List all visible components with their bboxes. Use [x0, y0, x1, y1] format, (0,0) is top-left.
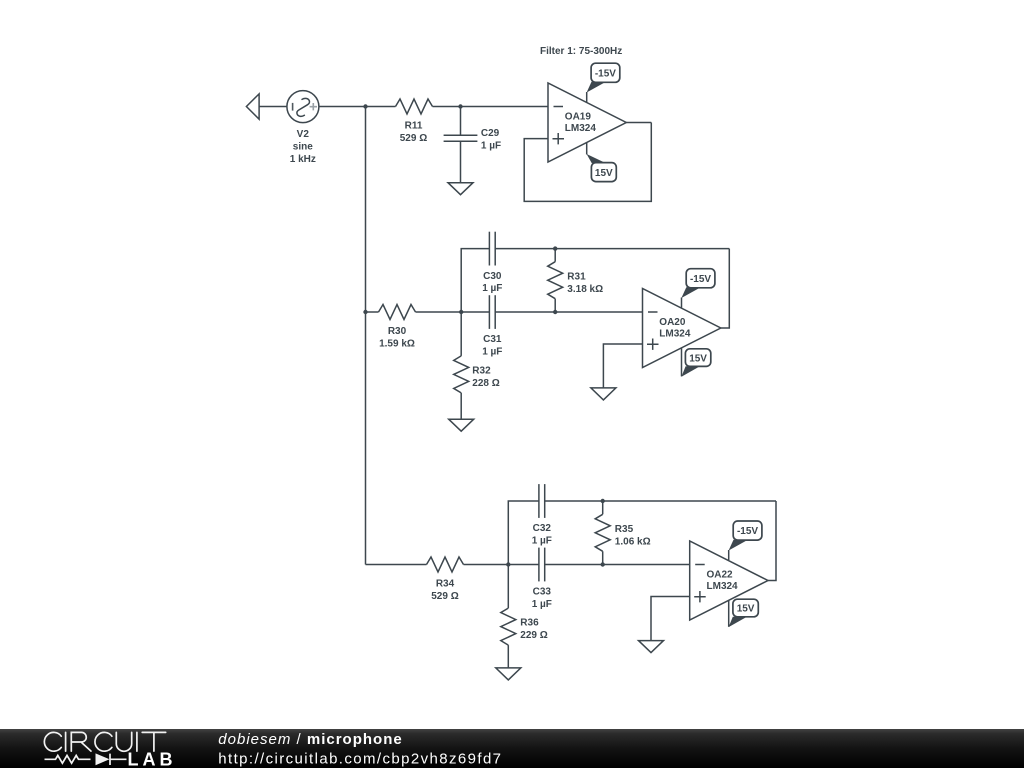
svg-text:Filter 1: 75-300Hz: Filter 1: 75-300Hz	[540, 46, 622, 57]
svg-text:R34: R34	[436, 579, 455, 590]
svg-text:3.18 kΩ: 3.18 kΩ	[567, 284, 603, 295]
svg-text:R35: R35	[615, 524, 634, 535]
ground below R32	[449, 419, 474, 431]
node B junction	[458, 104, 462, 108]
svg-text:C29: C29	[481, 128, 500, 139]
wire node C to R30	[366, 311, 379, 313]
wire trunk corner to R34 (row3)	[366, 564, 427, 566]
svg-text:C30: C30	[483, 271, 502, 282]
resistor R34	[427, 557, 464, 572]
ground below C29	[448, 183, 473, 195]
label R30 1.59k	[379, 326, 415, 349]
wire R11 to node B	[433, 106, 461, 108]
logo CIRCUIT outline letters	[44, 732, 165, 751]
wire node B to OA19 minus	[461, 106, 549, 108]
svg-text:R30: R30	[388, 326, 407, 337]
svg-text:1 µF: 1 µF	[482, 346, 502, 357]
svg-text:1 µF: 1 µF	[532, 536, 552, 547]
svg-text:dobiesem / microphone: dobiesem / microphone	[218, 731, 402, 748]
wire node D up to top rail	[461, 249, 489, 312]
footer url line	[218, 751, 502, 768]
label C30 1uF	[482, 271, 502, 294]
wire OA19 V- pin	[586, 142, 588, 154]
svg-text:LM324: LM324	[707, 581, 739, 592]
label C32 1uF	[532, 523, 552, 546]
logo resistor-diode line	[45, 753, 127, 765]
footer credit line	[218, 731, 402, 748]
wire node G up to bottom top-rail	[508, 501, 539, 565]
label C33 1uF	[532, 587, 552, 610]
svg-text:OA19: OA19	[565, 112, 592, 123]
title Filter 1: 75-300Hz	[540, 46, 622, 57]
wire OA19 feedback loop	[524, 123, 651, 202]
wire OA22 output and feedback	[768, 501, 776, 581]
svg-text:OA22: OA22	[707, 570, 734, 581]
label C29 1uF	[481, 128, 501, 151]
wire OA20 output and feedback	[721, 249, 730, 328]
capacitor C30	[489, 232, 495, 266]
wire OA22 plus to ground	[651, 597, 690, 641]
svg-text:V2: V2	[297, 129, 310, 140]
svg-text:LM324: LM324	[565, 123, 597, 134]
svg-text:C33: C33	[533, 587, 552, 598]
op-amp U3 OA22	[690, 541, 768, 620]
wire port to V2	[259, 106, 287, 108]
wire node D to C31	[461, 311, 489, 313]
power flag 15V (OA20)	[681, 349, 710, 377]
label R34 529	[431, 579, 458, 603]
svg-text:http://circuitlab.com/cbp2vh8z: http://circuitlab.com/cbp2vh8z69fd7	[218, 751, 502, 768]
wire V2 to node A	[319, 106, 366, 108]
svg-text:1.59 kΩ: 1.59 kΩ	[379, 338, 415, 349]
label R32 228	[472, 365, 499, 389]
power flag 15V (OA22)	[729, 599, 759, 627]
svg-text:LM324: LM324	[659, 329, 691, 340]
svg-text:529 Ω: 529 Ω	[400, 133, 427, 144]
ground port (rotated, input)	[246, 94, 259, 119]
svg-text:1.06 kΩ: 1.06 kΩ	[615, 536, 651, 547]
node A junction	[363, 104, 367, 108]
capacitor C32	[539, 484, 545, 518]
wire node A to R11	[366, 106, 396, 108]
power flag -15V (OA22)	[729, 521, 762, 551]
resistor R11	[396, 99, 433, 114]
node E junction (R31 top)	[553, 246, 557, 250]
svg-text:15V: 15V	[689, 353, 707, 364]
resistor R35	[595, 501, 610, 565]
wire OA22 V- pin	[728, 600, 730, 627]
power flag 15V (OA19)	[587, 154, 617, 182]
label R11 529 ohm	[400, 121, 427, 144]
label R35 1.06k	[615, 524, 651, 548]
resistor R36	[501, 565, 516, 668]
wire C30 to rail corner	[495, 248, 729, 250]
label R36 229	[520, 618, 547, 642]
svg-text:R11: R11	[405, 121, 423, 132]
ground below R36	[496, 668, 521, 680]
wire OA20 V+ pin	[681, 298, 683, 308]
svg-text:229 Ω: 229 Ω	[520, 630, 547, 641]
capacitor C29	[444, 107, 478, 183]
power flag -15V (OA19)	[587, 63, 620, 92]
capacitor C31	[489, 295, 495, 329]
svg-text:15V: 15V	[595, 168, 613, 179]
svg-text:1 µF: 1 µF	[532, 599, 552, 610]
wire OA20 plus to ground	[603, 344, 642, 388]
node I junction (R35 bottom)	[601, 562, 605, 566]
svg-text:C32: C32	[533, 523, 552, 534]
resistor R31	[548, 249, 563, 312]
wire C32 to rail corner	[545, 500, 776, 502]
node H junction (R35 top)	[601, 499, 605, 503]
wire R34 to node G	[464, 564, 509, 566]
svg-text:R31: R31	[567, 271, 586, 282]
op-amp U1 OA19	[548, 83, 626, 162]
node C junction (row2 trunk)	[363, 310, 367, 314]
resistor R32	[454, 312, 469, 419]
label R31 3.18k	[567, 271, 603, 295]
trunk wire	[365, 107, 367, 565]
footer bar	[0, 729, 1024, 768]
ground at OA20 plus	[591, 388, 616, 400]
wire C33 to OA22 minus	[545, 564, 690, 566]
svg-text:OA20: OA20	[659, 317, 686, 328]
svg-text:R32: R32	[472, 365, 491, 376]
wire C31 to OA20 minus	[495, 311, 642, 313]
op-amp U2 OA20	[643, 289, 721, 368]
svg-text:1 µF: 1 µF	[482, 283, 502, 294]
svg-text:sine: sine	[293, 141, 313, 152]
wire OA20 V- pin	[681, 348, 683, 377]
svg-text:228 Ω: 228 Ω	[472, 378, 499, 389]
svg-text:C31: C31	[483, 334, 502, 345]
logo LAB text	[128, 749, 177, 768]
svg-text:15V: 15V	[737, 604, 755, 615]
svg-text:-15V: -15V	[690, 274, 711, 285]
resistor R30	[379, 305, 416, 320]
svg-text:-15V: -15V	[595, 68, 616, 79]
wire OA19 output	[626, 122, 651, 124]
node G junction	[506, 562, 510, 566]
svg-text:LAB: LAB	[128, 749, 177, 768]
svg-text:1 µF: 1 µF	[481, 140, 501, 151]
wire node G to C33	[508, 564, 539, 566]
svg-text:529 Ω: 529 Ω	[431, 591, 458, 602]
ground at OA22 plus	[639, 641, 664, 653]
svg-text:1 kHz: 1 kHz	[290, 154, 316, 165]
wire OA19 V+ pin	[586, 92, 588, 102]
voltage source V2	[287, 91, 319, 123]
power flag -15V (OA20)	[681, 269, 715, 298]
capacitor C33	[539, 548, 545, 582]
svg-text:R36: R36	[520, 618, 539, 629]
wire OA22 V+ pin	[728, 550, 730, 560]
svg-text:-15V: -15V	[737, 526, 758, 537]
label V2 / sine / 1 kHz	[290, 129, 316, 165]
node D junction	[459, 310, 463, 314]
wire R30 to node D	[416, 311, 462, 313]
label C31 1uF	[482, 334, 502, 357]
node F junction (R31 bottom)	[553, 310, 557, 314]
